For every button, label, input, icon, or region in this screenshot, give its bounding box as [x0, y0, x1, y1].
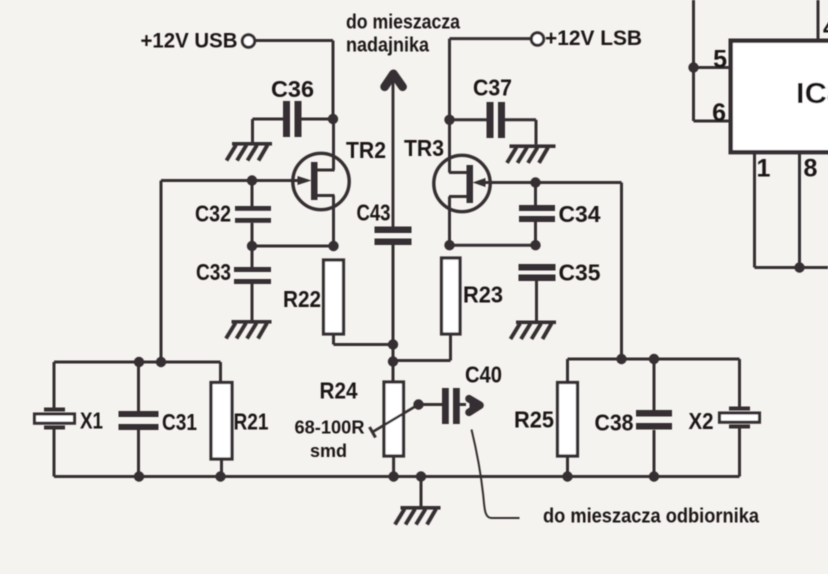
- svg-text:R25: R25: [514, 407, 554, 433]
- svg-text:R21: R21: [234, 409, 269, 435]
- svg-text:smd: smd: [310, 441, 347, 461]
- svg-text:6: 6: [712, 99, 726, 127]
- svg-text:C37: C37: [473, 75, 512, 101]
- svg-text:C36: C36: [271, 76, 314, 102]
- svg-text:C32: C32: [195, 201, 231, 227]
- svg-text:C43: C43: [357, 200, 391, 226]
- svg-text:+12V LSB: +12V LSB: [545, 26, 642, 50]
- svg-text:C31: C31: [162, 409, 197, 435]
- svg-text:R24: R24: [320, 378, 358, 404]
- svg-text:do mieszacza: do mieszacza: [346, 12, 461, 34]
- svg-text:R23: R23: [463, 282, 503, 308]
- svg-text:TR3: TR3: [404, 135, 444, 161]
- svg-text:5: 5: [713, 46, 727, 74]
- svg-text:C35: C35: [559, 260, 601, 286]
- svg-text:nadajnika: nadajnika: [346, 35, 430, 57]
- svg-text:+12V USB: +12V USB: [141, 29, 238, 53]
- svg-text:8: 8: [804, 155, 818, 183]
- svg-text:C38: C38: [595, 410, 634, 436]
- svg-text:R22: R22: [283, 286, 321, 312]
- svg-text:1: 1: [757, 155, 771, 183]
- svg-text:TR2: TR2: [346, 137, 386, 163]
- svg-text:X2: X2: [689, 408, 714, 434]
- svg-text:C34: C34: [559, 201, 601, 227]
- svg-text:X1: X1: [80, 408, 103, 434]
- svg-text:C40: C40: [465, 362, 502, 388]
- svg-text:68-100R: 68-100R: [295, 418, 365, 438]
- svg-text:IC8: IC8: [796, 78, 828, 110]
- svg-text:4: 4: [823, 14, 828, 42]
- svg-text:C33: C33: [196, 259, 231, 285]
- svg-text:do mieszacza odbiornika: do mieszacza odbiornika: [543, 506, 760, 528]
